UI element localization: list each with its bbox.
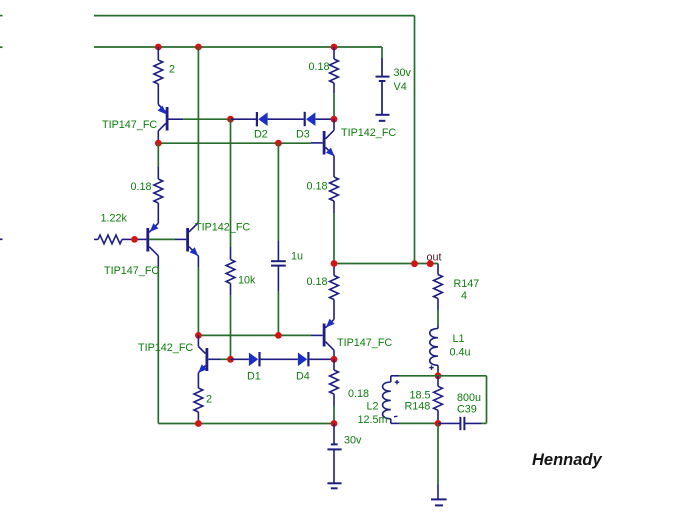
wire bottom rail xyxy=(158,423,334,425)
svg-text:0.4u: 0.4u xyxy=(450,347,471,359)
resistor R1 2ohm xyxy=(154,47,163,105)
transistor Q1 TIP147_FC (PNP) xyxy=(158,105,184,144)
label R1 value 2 xyxy=(169,64,175,76)
label Q2 TIP142_FC xyxy=(341,127,396,139)
node junction input / driver bases xyxy=(131,236,138,243)
svg-text:30v: 30v xyxy=(394,67,412,79)
svg-text:0.18: 0.18 xyxy=(307,276,328,288)
label V4 designator xyxy=(394,81,407,93)
wire out node line xyxy=(334,263,438,265)
wire Q1 base to bias diodes xyxy=(183,118,230,120)
wire Q1 collector node line xyxy=(158,142,311,144)
node junction out / R8 xyxy=(331,260,338,267)
label D1 xyxy=(247,371,261,383)
label D4 xyxy=(296,371,310,383)
label R2 value 0.18 xyxy=(309,61,330,73)
svg-text:D3: D3 xyxy=(296,129,310,141)
diode D1 xyxy=(231,352,298,366)
label R147 value 4 xyxy=(461,290,467,302)
capacitor C39 800u xyxy=(438,417,482,430)
svg-text:TIP147_FC: TIP147_FC xyxy=(337,337,392,349)
svg-text:0.18: 0.18 xyxy=(348,388,369,400)
node junction 1u cap top xyxy=(275,140,282,147)
resistor R6 10k xyxy=(226,247,235,295)
resistor R7 2ohm xyxy=(194,388,203,424)
wire Q4 collector from +rail xyxy=(197,47,199,223)
label Q1 TIP147_FC xyxy=(102,119,157,131)
node junction Q4 emitter / Q5 collector xyxy=(195,332,202,339)
wire top line xyxy=(94,15,415,17)
svg-text:TIP142_FC: TIP142_FC xyxy=(138,342,193,354)
label node out xyxy=(427,252,442,264)
wire R3 to out node xyxy=(333,213,335,264)
svg-text:0.18: 0.18 xyxy=(307,181,328,193)
transistor Q3 TIP147_FC driver (PNP) xyxy=(135,223,159,267)
node junction Q5 base / 10k / D1 xyxy=(227,356,234,363)
label L2 value 12.5m xyxy=(358,414,388,426)
label L1 value 0.4u xyxy=(450,347,471,359)
wire V4 top lead xyxy=(381,47,383,58)
label L2 designator xyxy=(367,401,379,413)
label V4 value 30v xyxy=(394,67,412,79)
label R6 value 10k xyxy=(238,275,256,287)
transistor Q2 TIP142_FC (NPN) xyxy=(311,119,335,177)
node junction out / feed line xyxy=(411,260,418,267)
svg-text:TIP142_FC: TIP142_FC xyxy=(195,222,250,234)
svg-text:30v: 30v xyxy=(344,435,362,447)
wire Q4 emitter down xyxy=(197,267,199,335)
wire node A left branch xyxy=(399,375,438,377)
wire node A right branch xyxy=(438,376,487,424)
wire L2 to node B xyxy=(399,422,438,424)
node junction R7 / bottom rail xyxy=(195,420,202,427)
resistor R147 4ohm xyxy=(434,264,443,311)
label R9 value 0.18 xyxy=(348,388,369,400)
label R8 value 0.18 xyxy=(307,276,328,288)
svg-text:2: 2 xyxy=(169,64,175,76)
svg-text:1u: 1u xyxy=(291,251,303,263)
label Q3 TIP147_FC xyxy=(104,265,159,277)
label C39 designator xyxy=(457,404,477,416)
wire Q5 base stub xyxy=(221,358,231,360)
svg-text:Hennady: Hennady xyxy=(532,451,603,469)
node junction Q1 base / 10k / D2 xyxy=(227,116,234,123)
wire right vertical from top line to out xyxy=(414,16,416,264)
resistor R148 18.5 xyxy=(434,376,443,424)
node junction L1 / R148 / L2 / C39 (node A) xyxy=(435,372,442,379)
label Q6 TIP147_FC xyxy=(337,337,392,349)
transistor Q4 TIP142_FC driver (NPN) xyxy=(175,223,198,268)
diode D3 xyxy=(305,112,334,126)
transistor Q5 TIP142_FC (NPN) xyxy=(198,335,220,388)
svg-text:0.18: 0.18 xyxy=(131,181,152,193)
node junction D3 / Q2 collector xyxy=(331,116,338,123)
node out xyxy=(427,260,434,267)
resistor R8 0.18 (out to Q6) xyxy=(330,264,339,320)
wire Q1 base node to 10k xyxy=(230,119,232,247)
diode D2 xyxy=(231,112,304,126)
svg-text:D4: D4 xyxy=(296,371,310,383)
label L1 designator xyxy=(453,333,465,345)
svg-text:10k: 10k xyxy=(238,275,256,287)
battery V4 xyxy=(376,58,390,121)
svg-text:4: 4 xyxy=(461,290,467,302)
svg-text:L2: L2 xyxy=(367,401,379,413)
transistor Q6 TIP147_FC (PNP) xyxy=(311,319,335,360)
svg-text:out: out xyxy=(427,252,442,264)
svg-text:2: 2 xyxy=(206,394,212,406)
svg-text:12.5m: 12.5m xyxy=(358,414,388,426)
svg-text:TIP147_FC: TIP147_FC xyxy=(104,265,159,277)
node junction +rail/Q4 collector line xyxy=(195,44,202,51)
label R7 value 2 xyxy=(206,394,212,406)
resistor R2 0.18 xyxy=(330,47,339,93)
resistor R4 0.18 xyxy=(154,167,163,223)
wire +30v rail xyxy=(94,46,382,48)
wire node B to ground xyxy=(437,423,439,484)
wire 1u cap bottom lead xyxy=(277,291,279,335)
node junction Q6 collector / D4 xyxy=(331,356,338,363)
wire R9 to bottom rail xyxy=(333,406,335,424)
svg-text:1.22k: 1.22k xyxy=(101,213,128,225)
svg-text:TIP142_FC: TIP142_FC xyxy=(341,127,396,139)
wire 1u cap top lead xyxy=(277,143,279,241)
node junction bottom rail / battery xyxy=(331,420,338,427)
wire stub off-page +rail xyxy=(0,46,3,48)
wire base link Q3-Q4 xyxy=(149,238,175,240)
svg-text:D2: D2 xyxy=(254,129,268,141)
svg-text:0.18: 0.18 xyxy=(309,61,330,73)
inductor L2 12.5m xyxy=(383,376,400,424)
wire 10k to Q5 base node xyxy=(230,295,232,359)
wire stub off-page input xyxy=(0,238,3,240)
ground xyxy=(431,485,447,506)
wire R147 to L1 xyxy=(437,310,439,326)
battery V5 30v xyxy=(327,424,341,489)
label C39 value 800u xyxy=(457,392,481,404)
resistor R5 1.22k input xyxy=(94,235,135,244)
label R4 value 0.18 xyxy=(131,181,152,193)
wire stub off-page top line xyxy=(0,15,3,17)
wire Q3 collector to bottom rail xyxy=(157,267,159,424)
label D2 xyxy=(254,129,268,141)
capacitor C1 1u xyxy=(271,241,286,291)
label D3 xyxy=(296,129,310,141)
resistor R9 0.18 (Q6 collector) xyxy=(330,359,339,406)
node junction R148 / C39 / ground (node B) xyxy=(435,420,442,427)
diode D4 xyxy=(298,352,334,366)
signature Hennady xyxy=(532,451,603,469)
inductor L1 0.4u xyxy=(429,326,438,376)
label Q4 TIP142_FC xyxy=(195,222,250,234)
node junction +rail/R2 xyxy=(331,44,338,51)
label R3 value 0.18 xyxy=(307,181,328,193)
label C1 value 1u xyxy=(291,251,303,263)
label R148 value 18.5 xyxy=(410,390,431,402)
label Q5 TIP142_FC xyxy=(138,342,193,354)
node junction 1u cap bottom xyxy=(275,332,282,339)
node junction Q1 collector xyxy=(155,140,162,147)
svg-text:C39: C39 xyxy=(457,404,477,416)
svg-text:TIP147_FC: TIP147_FC xyxy=(102,119,157,131)
resistor R3 0.18 (Q2 emitter) xyxy=(330,177,339,213)
label R148 designator xyxy=(405,401,431,413)
label V5 value 30v xyxy=(344,435,362,447)
svg-text:L1: L1 xyxy=(453,333,465,345)
svg-text:800u: 800u xyxy=(457,392,481,404)
svg-text:R147: R147 xyxy=(454,278,480,290)
wire Q6 base rail xyxy=(198,334,311,336)
wire C39 to right branch xyxy=(482,422,487,424)
svg-text:D1: D1 xyxy=(247,371,261,383)
wire R2 to Q2 collector node xyxy=(333,93,335,119)
svg-text:V4: V4 xyxy=(394,81,407,93)
label R5 value 1.22k xyxy=(101,213,128,225)
label R147 designator xyxy=(454,278,480,290)
wire node to R4 xyxy=(157,143,159,167)
svg-text:R148: R148 xyxy=(405,401,431,413)
node junction +rail/R1 xyxy=(155,44,162,51)
